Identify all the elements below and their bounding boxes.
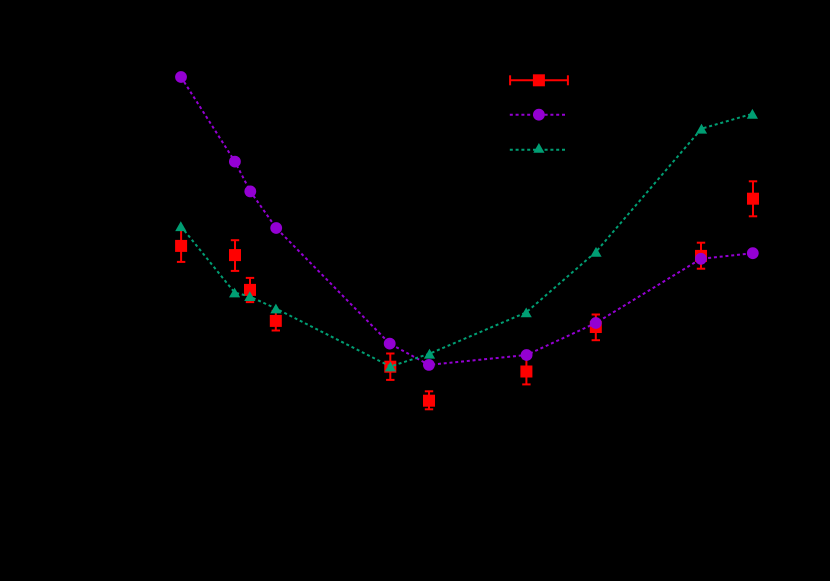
errorbar R8 bbox=[592, 315, 600, 341]
errorbar R10 bbox=[749, 181, 757, 216]
purple series dashed line bbox=[181, 77, 753, 365]
green series dashed line bbox=[181, 114, 753, 367]
errorbar R3 bbox=[246, 278, 254, 302]
errorbar R2 bbox=[231, 240, 239, 271]
legend entry 3: green dashed sample bbox=[510, 149, 567, 151]
green series triangle markers bbox=[175, 109, 758, 372]
errorbar R1 bbox=[177, 230, 185, 262]
legend entry 1: red errorbar sample bbox=[510, 75, 568, 85]
errorbar R6 bbox=[425, 391, 433, 409]
errorbar R4 bbox=[272, 311, 280, 331]
legend entry 2: purple dashed sample bbox=[510, 114, 567, 116]
red series square markers bbox=[175, 193, 759, 407]
errorbar R9 bbox=[697, 243, 705, 269]
purple series circle markers bbox=[175, 71, 759, 371]
errorbar R5 bbox=[386, 354, 394, 380]
errorbar R7 bbox=[522, 359, 530, 385]
red series error bars bbox=[177, 181, 757, 409]
